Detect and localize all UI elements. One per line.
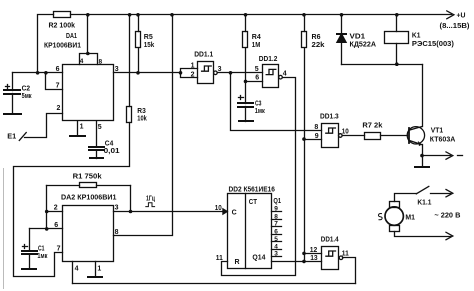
svg-text:~ 220 В: ~ 220 В — [434, 211, 461, 220]
wire DD1.4 out to bottom rail — [343, 258, 356, 284]
wire M1 to 220V — [395, 232, 451, 237]
svg-text:R6: R6 — [312, 34, 321, 41]
wire DA2 pin3 output to DD2 C — [114, 211, 223, 213]
svg-text:DA2 КР1006ВИ1: DA2 КР1006ВИ1 — [61, 193, 117, 202]
wire pin 2 to E1 — [25, 114, 63, 138]
svg-text:3: 3 — [274, 250, 278, 257]
sensor E1 — [19, 133, 26, 141]
wire DA2 pin2 to pin6 — [46, 212, 48, 229]
svg-text:6: 6 — [56, 66, 60, 73]
svg-text:8: 8 — [274, 213, 278, 220]
ground — [4, 113, 21, 115]
svg-text:9: 9 — [274, 206, 278, 213]
svg-text:5мк: 5мк — [22, 93, 32, 100]
wire VD1 to VT1 collector — [342, 64, 423, 66]
svg-text:1: 1 — [191, 63, 195, 70]
wire DD1.4 pin12 — [305, 253, 322, 255]
ground — [88, 276, 102, 278]
ground — [415, 166, 429, 168]
transistor Q1 : VT1 KT603A — [422, 65, 424, 127]
svg-text:13: 13 — [310, 255, 318, 262]
svg-text:DD2 К561ИЕ16: DD2 К561ИЕ16 — [229, 187, 275, 194]
wire emitter to ground — [422, 156, 424, 167]
DD2 output pin stubs — [272, 212, 282, 257]
svg-text:K1.1: K1.1 — [417, 198, 431, 207]
svg-text:КТ603А: КТ603А — [430, 134, 456, 143]
svg-text:1мк: 1мк — [255, 108, 265, 115]
wire reset bottom rail — [73, 283, 356, 285]
wire R3 to DA2 pin7 — [14, 123, 130, 277]
svg-text:Q1: Q1 — [273, 198, 281, 205]
wire DA1 supply drop to pins 4-8 — [87, 15, 89, 54]
svg-text:2: 2 — [54, 205, 58, 212]
svg-text:DD1.2: DD1.2 — [259, 56, 278, 63]
wire node A to pin 6 — [13, 72, 63, 74]
svg-text:15k: 15k — [144, 42, 155, 49]
svg-text:5: 5 — [274, 236, 278, 243]
svg-text:6: 6 — [255, 75, 259, 82]
svg-text:4: 4 — [274, 243, 278, 250]
svg-text:1Гц: 1Гц — [146, 194, 155, 203]
svg-text:R5: R5 — [144, 34, 153, 41]
wire DA2 pin6 — [30, 228, 63, 230]
svg-text:11: 11 — [342, 250, 349, 257]
svg-text:8: 8 — [314, 124, 318, 131]
svg-text:4: 4 — [80, 58, 84, 65]
resistor R6 — [304, 15, 306, 32]
wire DA1 pin3 output — [114, 72, 181, 74]
svg-text:CT: CT — [249, 199, 258, 206]
diode VD1 — [341, 15, 343, 34]
wire DA2 pin2 — [47, 211, 63, 213]
op-amp U2 : timer DA2 KR1006VI1 box — [63, 206, 114, 262]
svg-text:C2: C2 — [22, 86, 31, 93]
wire DD1.2 pin6 — [246, 81, 263, 83]
svg-text:КД522А: КД522А — [350, 39, 377, 48]
svg-text:C3: C3 — [255, 101, 262, 108]
svg-text:C4: C4 — [105, 141, 114, 148]
svg-text:3: 3 — [218, 66, 222, 73]
ground — [90, 157, 103, 159]
svg-text:2: 2 — [191, 71, 195, 78]
gate DD1.2 box — [263, 65, 279, 88]
wire DD1.1 out — [218, 72, 263, 74]
op-amp U1 : timer DA1 KR1006VI1 box — [63, 65, 114, 121]
svg-text:КР1006ВИ1: КР1006ВИ1 — [44, 41, 81, 50]
wire DA2 pin4 to reset rail — [72, 262, 74, 284]
svg-text:4: 4 — [75, 265, 79, 272]
ground — [239, 120, 253, 122]
wire DD1.1 out down to DD1.3 pin8 — [231, 73, 322, 131]
svg-text:R1 750k: R1 750k — [73, 171, 103, 180]
capacitor C2 — [12, 73, 14, 91]
svg-text:1М: 1М — [252, 42, 261, 49]
wire DD1.3 pin9 — [305, 139, 322, 141]
wire DA2 pin8 supply from rail — [114, 15, 173, 236]
svg-text:VT1: VT1 — [431, 126, 443, 135]
counter DD2 K561IE16 box — [228, 194, 272, 269]
gate DD1.4 box — [322, 247, 339, 270]
svg-text:DA1: DA1 — [66, 31, 77, 40]
wire +U top rail — [71, 14, 452, 16]
wire emitter common arrow — [423, 155, 451, 157]
svg-text:Q14: Q14 — [252, 255, 265, 262]
resistor R3 — [129, 15, 131, 107]
contact K1.1 — [395, 194, 417, 202]
resistor R1 — [47, 185, 80, 187]
svg-text:5: 5 — [98, 124, 102, 131]
+U arrow — [447, 11, 454, 19]
resistor R2 — [54, 12, 71, 18]
gate DD1.3 box — [322, 124, 339, 148]
capacitor C4 — [96, 122, 98, 147]
svg-text:11: 11 — [216, 255, 223, 262]
wire DD1.2 out to DD2 R — [222, 78, 296, 276]
svg-text:9: 9 — [315, 133, 319, 140]
svg-text:22k: 22k — [312, 42, 325, 49]
svg-text:DD1.3: DD1.3 — [320, 114, 339, 121]
svg-text:7: 7 — [57, 246, 61, 253]
svg-text:C1: C1 — [38, 245, 45, 252]
svg-text:(8...15В): (8...15В) — [440, 23, 470, 30]
svg-text:4: 4 — [283, 71, 287, 78]
wire pin 7 branch — [46, 73, 63, 90]
svg-text:РЭС15(003): РЭС15(003) — [412, 39, 455, 48]
svg-text:0,01: 0,01 — [104, 148, 120, 155]
gate DD1.1 input bracket — [181, 69, 198, 78]
wire DA2 pin1 — [95, 262, 97, 277]
svg-text:E1: E1 — [7, 132, 16, 141]
svg-text:M1: M1 — [405, 212, 415, 221]
wire DD1.3 out to R7 — [343, 135, 365, 137]
resistor R5 — [138, 15, 140, 32]
capacitor C1 — [29, 229, 31, 251]
svg-text:5: 5 — [255, 66, 259, 73]
svg-text:R4: R4 — [252, 34, 261, 41]
resistor R4 — [245, 15, 247, 32]
wire Q14 output to DD1.4 pin13 — [272, 261, 322, 263]
svg-text:10k: 10k — [137, 115, 147, 122]
svg-text:R3: R3 — [137, 108, 146, 115]
resistor R7 — [365, 133, 381, 140]
wire DA1 pin1 — [77, 122, 79, 136]
gate DD1.1 box — [198, 62, 214, 84]
svg-text:R2 100k: R2 100k — [49, 20, 76, 29]
relay coil K1 — [396, 15, 398, 32]
ground — [70, 135, 85, 137]
svg-text:R7 2k: R7 2k — [362, 121, 383, 130]
svg-text:3: 3 — [115, 204, 119, 211]
svg-text:R: R — [235, 259, 240, 266]
wire +U top rail left corner to node A — [38, 15, 54, 73]
svg-text:C: C — [232, 209, 237, 216]
svg-text:1мк: 1мк — [37, 253, 47, 260]
wire R7 to VT1 base — [381, 135, 408, 137]
svg-text:+U: +U — [457, 11, 466, 20]
pulse 1Hz symbol — [146, 203, 155, 207]
svg-text:DD1.1: DD1.1 — [194, 52, 213, 59]
svg-text:12: 12 — [310, 247, 318, 254]
svg-text:8: 8 — [99, 59, 103, 66]
svg-text:8: 8 — [115, 229, 119, 236]
svg-text:1: 1 — [97, 265, 101, 272]
svg-text:1: 1 — [80, 124, 84, 131]
svg-text:6: 6 — [54, 222, 58, 229]
capacitor C3 — [245, 82, 247, 104]
svg-text:10: 10 — [215, 205, 222, 212]
svg-text:10: 10 — [342, 129, 349, 136]
svg-text:6: 6 — [274, 228, 278, 235]
svg-text:7: 7 — [56, 82, 60, 89]
svg-text:2: 2 — [57, 105, 61, 112]
svg-text:7: 7 — [274, 221, 278, 228]
ground — [22, 268, 36, 270]
node DD2 C input arrow — [223, 208, 228, 214]
wire DA1 pin4-8 bracket — [80, 54, 98, 65]
svg-text:3: 3 — [115, 66, 119, 73]
svg-text:DD1.4: DD1.4 — [321, 237, 339, 244]
motor M1 — [385, 207, 403, 225]
